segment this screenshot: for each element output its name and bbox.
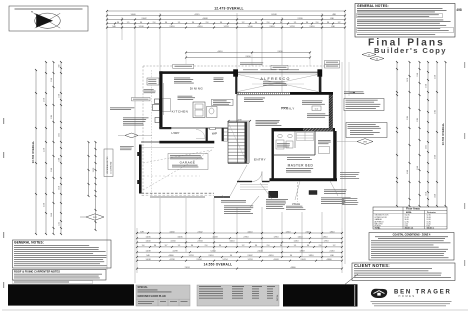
- wall: top north wall: [159, 71, 237, 74]
- svg-text:1.438: 1.438: [145, 251, 151, 253]
- svg-text:4.460: 4.460: [169, 231, 175, 233]
- alfresco east column: [319, 77, 322, 93]
- svg-text:2.490: 2.490: [277, 51, 283, 53]
- svg-text:4.640: 4.640: [407, 170, 409, 174]
- window schedule boxes above right: [325, 61, 340, 65]
- wall: garage north: [159, 141, 214, 144]
- svg-text:4.410: 4.410: [197, 26, 203, 28]
- svg-text:1.810: 1.810: [308, 255, 314, 257]
- svg-text:1.435: 1.435: [145, 237, 151, 239]
- wall: master suite top: [272, 128, 336, 131]
- svg-text:2.443: 2.443: [300, 259, 306, 261]
- svg-text:2.470: 2.470: [407, 78, 409, 82]
- page bottom edge line: [2, 309, 468, 311]
- svg-text:1.910: 1.910: [59, 94, 61, 98]
- bottom dim line 1: [137, 232, 342, 234]
- svg-text:1.100: 1.100: [59, 158, 61, 162]
- room label GARAGE: [168, 154, 208, 170]
- svg-text:5.154: 5.154: [222, 259, 228, 261]
- wall: family north (thick): [290, 92, 333, 95]
- svg-text:4.515: 4.515: [194, 14, 200, 16]
- svg-text:INITIAL: INITIAL: [276, 295, 279, 301]
- svg-text:Perimeter: Perimeter: [427, 211, 436, 214]
- svg-text:13.790 OVERALL: 13.790 OVERALL: [31, 140, 35, 163]
- svg-text:4.468: 4.468: [202, 18, 208, 20]
- svg-text:2.410: 2.410: [305, 231, 311, 233]
- right note box: clear side access: [344, 99, 384, 111]
- robe hatched band: [303, 128, 333, 131]
- svg-text:COLORBOND: COLORBOND: [111, 161, 113, 174]
- svg-text:1.640: 1.640: [130, 14, 136, 16]
- svg-text:2.140: 2.140: [51, 78, 53, 82]
- svg-text:2.440: 2.440: [51, 213, 53, 217]
- svg-text:1.910: 1.910: [323, 241, 329, 243]
- svg-text:TOTAL: TOTAL: [375, 226, 382, 229]
- porch steps: [240, 184, 268, 186]
- client notes box: [352, 263, 455, 281]
- post B at grid 322: [317, 69, 322, 76]
- svg-text:2.905: 2.905: [417, 118, 419, 122]
- svg-text:4.003: 4.003: [273, 259, 279, 261]
- svg-text:DINING: DINING: [190, 86, 204, 90]
- svg-text:2.642: 2.642: [197, 231, 203, 233]
- svg-text:940: 940: [59, 65, 61, 68]
- right note box: plumber note: [346, 123, 387, 138]
- entry door arc: [252, 172, 262, 182]
- general notes box (top right): [355, 4, 455, 38]
- garage door dashed: [142, 192, 215, 194]
- svg-text:14.550 OVERALL: 14.550 OVERALL: [204, 263, 233, 267]
- fridge + wc fixtures: [207, 107, 218, 118]
- alfresco north notes above beam: [240, 62, 263, 65]
- svg-text:2.334: 2.334: [196, 259, 202, 261]
- svg-text:1.910: 1.910: [273, 237, 279, 239]
- kitchen bench: [163, 83, 165, 115]
- svg-text:2.010: 2.010: [329, 251, 335, 253]
- eave dashed outline top: [143, 65, 330, 67]
- page edge tick marks: [3, 118, 4, 124]
- bottom dim line 2: [137, 237, 342, 239]
- eave label box 1: [173, 64, 194, 68]
- hall wall below kitchen: [159, 127, 171, 129]
- upper right cluster: [324, 189, 347, 192]
- svg-text:1.438: 1.438: [145, 259, 151, 261]
- svg-text:GROUND FLOOR PLAN: GROUND FLOOR PLAN: [138, 295, 166, 298]
- compass needle: [36, 14, 53, 28]
- svg-text:3.140: 3.140: [435, 75, 437, 79]
- svg-text:1.818: 1.818: [299, 251, 305, 253]
- svg-text:150.51 m: 150.51 m: [427, 227, 435, 229]
- ben trager logo mark: [371, 289, 387, 298]
- redacted black box left: [8, 284, 134, 305]
- bottom dim line 4: [137, 246, 342, 248]
- svg-text:4.640: 4.640: [435, 155, 437, 159]
- svg-text:2.462: 2.462: [59, 133, 61, 137]
- svg-text:2.410: 2.410: [269, 26, 275, 28]
- leader lines to notes: [260, 183, 272, 199]
- stairs block: [228, 122, 247, 163]
- svg-text:3.905: 3.905: [435, 110, 437, 114]
- svg-text:1.253: 1.253: [247, 259, 253, 261]
- svg-text:1.253: 1.253: [289, 26, 295, 28]
- entry wall / stair side: [248, 122, 250, 163]
- svg-text:L'DRY: L'DRY: [172, 131, 180, 135]
- svg-text:2.905: 2.905: [51, 115, 53, 119]
- top dim line 2: [107, 15, 345, 17]
- svg-text:2.462: 2.462: [247, 255, 253, 257]
- top dim line 1 overall: [107, 10, 345, 12]
- small boxes on west wall: [155, 99, 160, 104]
- compass rose: [35, 13, 61, 28]
- small note line under boxes: [13, 281, 93, 284]
- svg-text:ALFRESCO: ALFRESCO: [260, 77, 290, 81]
- svg-text:2.443: 2.443: [257, 251, 263, 253]
- right lower notes: [340, 171, 359, 174]
- bottom dim extension lines: [136, 228, 138, 273]
- north-point / wind classification box: [9, 6, 88, 31]
- svg-text:AREA: AREA: [406, 211, 412, 214]
- svg-text:1.310: 1.310: [285, 231, 291, 233]
- left dimension lines: [35, 70, 37, 234]
- svg-text:1.100: 1.100: [247, 26, 253, 28]
- svg-text:1.410: 1.410: [426, 192, 428, 196]
- ldry door arc: [196, 130, 205, 139]
- notes below plan: porch cluster: [214, 196, 230, 198]
- svg-text:GARAGE: GARAGE: [180, 161, 196, 165]
- window band alfresco/family: [237, 91, 290, 93]
- svg-text:4.410: 4.410: [247, 231, 253, 233]
- svg-text:2.330: 2.330: [297, 18, 303, 20]
- svg-text:WM: WM: [363, 142, 367, 144]
- svg-text:4.860: 4.860: [326, 259, 332, 261]
- svg-text:1.010: 1.010: [293, 241, 299, 243]
- svg-text:1.253: 1.253: [223, 26, 229, 28]
- svg-text:304.51 m2: 304.51 m2: [405, 226, 414, 229]
- wall: entry south + porch: [237, 181, 252, 183]
- laundry/wip dividers: [206, 128, 208, 141]
- svg-text:ENTRY: ENTRY: [254, 158, 266, 162]
- svg-text:1.498: 1.498: [236, 119, 242, 121]
- svg-text:4.860: 4.860: [168, 255, 174, 257]
- plumbing point note box: [212, 99, 234, 105]
- svg-text:7.424: 7.424: [184, 267, 190, 269]
- wall: master south: [270, 178, 338, 181]
- bottom dim line 6: [137, 256, 342, 258]
- svg-text:3.640: 3.640: [51, 168, 53, 172]
- window label box left of wall: [147, 78, 159, 85]
- svg-text:CLIENT NOTES:: CLIENT NOTES:: [354, 263, 390, 268]
- svg-text:COASTAL CONDITIONS - ZONE 4: COASTAL CONDITIONS - ZONE 4: [393, 233, 431, 236]
- svg-text:MASTER BED: MASTER BED: [288, 163, 314, 167]
- hot water / solar annotation cluster: [110, 107, 134, 110]
- dashed drop to vdah: [297, 182, 299, 202]
- left inner dimension lines: [88, 142, 90, 196]
- garage eave note text: [150, 196, 205, 199]
- svg-text:4.410: 4.410: [217, 51, 223, 53]
- D2 dashed box: [312, 106, 321, 111]
- wall: kitchen west (thick): [159, 71, 162, 128]
- coastal conditions box: [369, 233, 454, 261]
- eave label box 2: [271, 65, 288, 69]
- svg-text:2.642: 2.642: [141, 18, 147, 20]
- bottom dim line 7: [137, 260, 342, 262]
- svg-text:GENERAL NOTES:: GENERAL NOTES:: [357, 4, 389, 8]
- general notes box (bottom left): [13, 240, 112, 268]
- svg-text:2.410: 2.410: [208, 255, 214, 257]
- svg-text:1.410: 1.410: [297, 237, 303, 239]
- svg-text:1.140: 1.140: [417, 73, 419, 77]
- right dimension lines: [396, 62, 398, 206]
- svg-text:13.790 OVERALL: 13.790 OVERALL: [441, 122, 445, 145]
- svg-text:2.640: 2.640: [417, 166, 419, 170]
- porch pier: [269, 191, 278, 197]
- robe shelving stripes: [297, 133, 314, 141]
- notes below plan: centre cluster: [266, 198, 288, 201]
- svg-text:1.810: 1.810: [329, 231, 335, 233]
- svg-text:4.298: 4.298: [169, 259, 175, 261]
- svg-text:V'DAH: V'DAH: [292, 202, 300, 206]
- wir label cluster: [318, 139, 331, 142]
- svg-text:4.190: 4.190: [44, 203, 46, 207]
- garage ceiling line: [142, 147, 215, 149]
- master annotation cluster: [287, 156, 310, 159]
- svg-text:4.860: 4.860: [290, 267, 296, 269]
- svg-text:1.440: 1.440: [145, 241, 151, 243]
- title block: [136, 285, 190, 306]
- svg-text:1.253: 1.253: [188, 255, 194, 257]
- svg-text:KITCHEN: KITCHEN: [172, 110, 189, 114]
- svg-text:2.410: 2.410: [309, 26, 315, 28]
- svg-text:GENERAL NOTES:: GENERAL NOTES:: [14, 240, 44, 244]
- second pier box right: [309, 191, 317, 195]
- ensuite partition walls: [274, 154, 315, 156]
- dining annotation cluster: [174, 77, 190, 80]
- svg-text:4.160: 4.160: [170, 241, 176, 243]
- wall: master west: [272, 131, 274, 180]
- notes below plan: right cluster: [321, 197, 351, 200]
- svg-text:3.670: 3.670: [44, 98, 46, 102]
- vertical note box left of garage: [104, 149, 113, 177]
- svg-text:SPECIAL: SPECIAL: [138, 286, 149, 289]
- entry annotation cluster: [244, 97, 265, 100]
- svg-text:HOMES: HOMES: [399, 295, 416, 298]
- svg-text:5.210: 5.210: [44, 148, 46, 152]
- svg-text:3.905: 3.905: [407, 116, 409, 120]
- bottom dim line 3: [137, 241, 342, 243]
- wall: master east: [333, 131, 336, 180]
- top dim line 3: [107, 19, 345, 21]
- svg-text:1.440: 1.440: [435, 194, 437, 198]
- svg-text:2.910: 2.910: [243, 237, 249, 239]
- diamond symbol below plumber note: [357, 139, 373, 145]
- post A at grid 237: [233, 69, 238, 76]
- svg-text:Builder's Copy: Builder's Copy: [374, 46, 447, 55]
- svg-text:VERANDAH NOTES: VERANDAH NOTES: [106, 156, 109, 174]
- logo address lines: [371, 300, 452, 303]
- svg-text:2.334: 2.334: [197, 241, 203, 243]
- garage roof dashed diagonals: [143, 150, 212, 190]
- svg-text:4.003: 4.003: [212, 237, 218, 239]
- alfresco beam: [238, 71, 318, 73]
- roof and fixing carpenter notes box: [13, 270, 107, 281]
- svg-text:5.154: 5.154: [210, 251, 216, 253]
- svg-text:3.435: 3.435: [177, 237, 183, 239]
- secondary dim lines above plan: [186, 52, 310, 54]
- svg-text:2.490: 2.490: [245, 56, 251, 58]
- alfresco roof slope lines: [238, 75, 318, 92]
- kitchen island: [193, 102, 205, 118]
- redacted black box right: [283, 284, 358, 306]
- svg-text:FAMILY: FAMILY: [281, 107, 294, 111]
- eave dashed outline left: [142, 66, 144, 196]
- bottom dim line 5: [137, 251, 342, 253]
- plan-side extension lines right: [341, 62, 343, 228]
- svg-text:2.410: 2.410: [59, 186, 61, 190]
- WM diamond symbol: [86, 214, 104, 220]
- family annotation cluster: [302, 100, 323, 103]
- eave note text above beam: [243, 68, 258, 71]
- top dimension extension lines: [106, 12, 108, 270]
- svg-text:2.410: 2.410: [169, 26, 175, 28]
- svg-text:3.462: 3.462: [426, 145, 428, 149]
- svg-text:4.298: 4.298: [172, 251, 178, 253]
- svg-text:8.148: 8.148: [271, 14, 277, 16]
- wall: garage west: [139, 145, 142, 194]
- left of plan annotation clusters: [144, 88, 154, 91]
- linen chute note: [344, 91, 364, 94]
- wall: family east hatched: [329, 95, 333, 128]
- svg-text:ROOF & FIXING CARPENTER NOTES: ROOF & FIXING CARPENTER NOTES: [14, 270, 60, 274]
- svg-text:1.810: 1.810: [322, 237, 328, 239]
- svg-text:2.910: 2.910: [426, 84, 428, 88]
- revision table: [197, 285, 279, 306]
- svg-text:3.410: 3.410: [229, 241, 235, 243]
- wall anchor dot: [350, 91, 355, 93]
- wall: dining/alfresco divider: [235, 77, 237, 95]
- bottom dim line 8: [137, 268, 342, 270]
- boxed label left: [132, 98, 151, 101]
- stamp marks: [362, 52, 384, 60]
- svg-text:1.100: 1.100: [138, 26, 144, 28]
- top dim line 5: [107, 27, 345, 29]
- svg-text:1.253: 1.253: [59, 222, 61, 226]
- svg-text:ZZO: ZZO: [93, 217, 97, 219]
- leader from black box: [345, 274, 358, 284]
- floor areas table: [373, 207, 447, 229]
- top dim line 4: [107, 23, 345, 25]
- svg-text:W/P: W/P: [212, 132, 217, 136]
- WM diamond mid-left: [125, 133, 138, 138]
- svg-text:Floor Areas: Floor Areas: [406, 208, 420, 211]
- svg-text:498: 498: [456, 8, 462, 12]
- svg-text:4.410: 4.410: [268, 255, 274, 257]
- svg-text:12.479 OVERALL: 12.479 OVERALL: [214, 7, 244, 11]
- svg-text:2.905: 2.905: [93, 168, 95, 173]
